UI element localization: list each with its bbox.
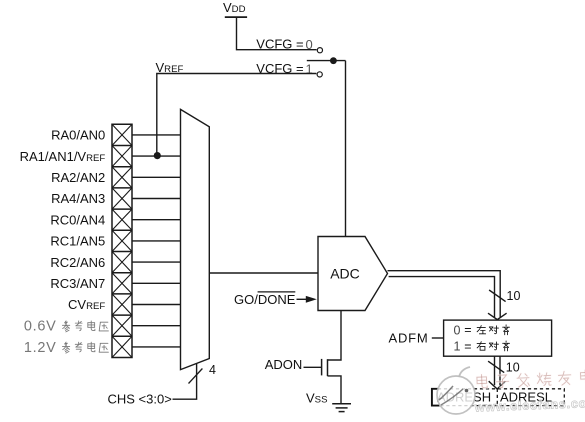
wire ADFM to box xyxy=(432,337,444,339)
switch wiper wire xyxy=(307,60,346,62)
svg-text:RA4/AN3: RA4/AN3 xyxy=(51,191,105,206)
CHS select wire with bus slash 4 xyxy=(173,364,197,399)
op block ADC (pentagon) xyxy=(318,237,388,311)
switch contact VCFG=0 (open circle) xyxy=(317,48,322,53)
register select box (ADFM) xyxy=(444,320,552,356)
svg-text:ADON: ADON xyxy=(265,357,303,372)
svg-text:ADC: ADC xyxy=(330,266,360,282)
svg-text:RA0/AN0: RA0/AN0 xyxy=(51,128,105,143)
wire ADC to ADON transistor xyxy=(328,311,342,361)
svg-text:0: 0 xyxy=(454,323,461,337)
pin label 0.6V reference voltage (gray) xyxy=(24,319,109,335)
junction on wiper xyxy=(330,57,337,64)
bus ADC result (10-bit, double line) xyxy=(388,271,507,320)
wire VREF to switch contact VCFG=1 xyxy=(157,74,317,157)
wire VDD to switch contact VCFG=0 xyxy=(237,17,317,50)
wires channel pads to mux xyxy=(132,135,181,347)
svg-text:10: 10 xyxy=(507,289,521,303)
junction node VREF / RA1 xyxy=(154,152,161,159)
svg-text:1.2V: 1.2V xyxy=(24,340,57,356)
svg-text:0: 0 xyxy=(306,37,313,52)
svg-text:RC0/AN4: RC0/AN4 xyxy=(50,212,105,227)
svg-text:10: 10 xyxy=(506,361,520,375)
pin label 1.2V reference voltage (gray) xyxy=(24,340,109,356)
watermark text dianzifashaoyou xyxy=(477,370,585,389)
svg-text:GO/DONE: GO/DONE xyxy=(234,292,296,307)
svg-text:VREF: VREF xyxy=(156,60,184,75)
svg-text:CHS <3:0>: CHS <3:0> xyxy=(108,391,172,406)
analog mux xyxy=(181,109,210,369)
svg-text:1: 1 xyxy=(454,340,461,354)
svg-text:VCFG =: VCFG = xyxy=(256,36,303,51)
svg-text:RC1/AN5: RC1/AN5 xyxy=(50,234,105,249)
svg-text:ADFM: ADFM xyxy=(389,330,429,345)
svg-text:RC2/AN6: RC2/AN6 xyxy=(50,255,105,270)
wire GO/DONE arrow into ADC xyxy=(297,298,309,300)
svg-text:VDD: VDD xyxy=(223,0,246,15)
svg-text:RA2/AN2: RA2/AN2 xyxy=(51,170,105,185)
bus to result registers (10-bit) xyxy=(488,356,505,389)
switch contact VCFG=1 (open circle) xyxy=(317,72,322,77)
source wire to ground xyxy=(328,376,342,404)
svg-text:4: 4 xyxy=(209,363,216,377)
watermark logo circle xyxy=(437,367,475,414)
svg-text:RC3/AN7: RC3/AN7 xyxy=(50,276,105,291)
svg-text:VSS: VSS xyxy=(306,391,327,406)
svg-text:RA1/AN1/VREF: RA1/AN1/VREF xyxy=(20,149,106,164)
analog input crossed boxes (channel pads) xyxy=(112,124,132,357)
svg-text:=: = xyxy=(464,323,471,337)
wire wiper to ADC VREF input xyxy=(345,61,347,237)
svg-text:=: = xyxy=(464,339,471,353)
register ADRESH / ADRESL (dashed box) xyxy=(432,389,564,406)
wire mux output to ADC xyxy=(209,272,318,274)
transistor ADON (NMOS) xyxy=(322,359,328,376)
svg-text:0.6V: 0.6V xyxy=(24,319,57,335)
net VDD power symbol xyxy=(225,16,247,18)
watermark logo swoosh xyxy=(439,386,468,405)
register box left bracket xyxy=(432,389,440,406)
gate wire from ADON label xyxy=(304,366,322,368)
ground VSS symbol xyxy=(332,404,351,412)
svg-text:CVREF: CVREF xyxy=(68,297,105,312)
